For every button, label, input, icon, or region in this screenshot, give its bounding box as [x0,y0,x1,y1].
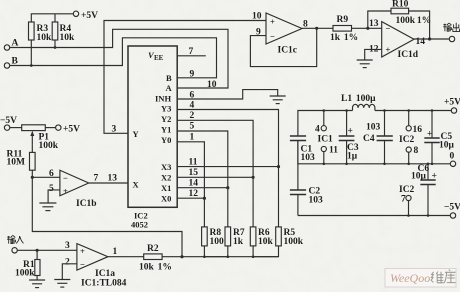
inductor L1 [353,104,375,110]
op-amp IC1a [77,244,108,271]
svg-text:5: 5 [49,184,54,194]
ground at R1 [29,280,45,288]
resistor R10 [391,8,409,14]
label output (Chinese) 输出 [443,23,459,32]
IC2 pin 14 wire (X1) joins Y1 net [177,187,228,189]
svg-text:R2: R2 [147,244,159,254]
SECTION-RBANK [182,165,304,257]
terminal +5V (R3/R4 pullup) [73,11,78,16]
pin 8 of IC2 [406,147,411,152]
capacitor C1 [290,135,306,137]
wire R11 bottom down to feedback node [32,170,182,257]
svg-text:Y3: Y3 [161,103,171,113]
pin 7 of IC2 [406,195,411,200]
svg-text:10k: 10k [60,33,76,43]
capacitor C6 (electrolytic) [427,164,429,180]
svg-text:IC2: IC2 [399,185,415,195]
resistor R11 [30,152,36,170]
IC2 pin 1 wire (Y0) to R8 [177,142,204,227]
node B junction dot [30,64,33,67]
wire R10 to output node [409,11,430,39]
label input (Chinese) 输入 [7,235,24,243]
wire IC2 pin7 stub [408,201,410,216]
svg-text:X1: X1 [161,183,171,193]
IC2 pin 7 stub (VEE) [177,55,206,57]
terminal A [4,45,9,50]
svg-text:B: B [166,73,172,83]
wire R11 top to wiper [31,145,33,153]
svg-text:103: 103 [366,123,381,133]
wire IC2 pin16 stub [408,111,410,126]
SECTION-IC1D [357,0,460,68]
wire R10 feedback riser [368,11,391,28]
svg-text:+: + [348,127,353,137]
terminal input [12,248,17,253]
svg-text:−: − [270,32,275,42]
svg-text:IC1:TL084: IC1:TL084 [81,279,127,289]
pin 16 of IC2 [406,126,411,131]
op-amp IC1c [266,13,302,44]
resistor R2 [144,254,162,260]
pin 11 of IC1 [321,146,326,151]
ground at IC1d [357,60,373,68]
svg-text:2: 2 [65,258,70,268]
node feedback junction [180,255,183,258]
svg-text:+5V: +5V [81,11,98,21]
wire IC2 pin3 Y to IC1c + input [104,21,266,134]
terminal -5V (P1 left) [4,125,9,130]
svg-text:3: 3 [112,125,117,135]
svg-text:+: + [432,172,437,182]
SECTION-IC1A [7,235,184,288]
wire IC1c output to R9 [302,27,333,29]
svg-text:12: 12 [189,189,199,199]
svg-text:1k: 1k [233,237,244,247]
capacitor C2 [297,164,299,190]
svg-text:100k: 100k [284,237,304,247]
node rail junction dots [203,109,433,258]
wire R3 bottom to node B [30,40,32,66]
resistor R6 [250,227,256,246]
wire +5V rail [298,111,353,137]
svg-text:10: 10 [207,80,217,90]
svg-text:Y: Y [133,129,139,139]
potentiometer P1 [10,127,22,129]
IC2 pin 12 wire (X0) joins Y0 net [177,197,204,199]
wire IC1d + input to ground [365,49,382,59]
svg-text:+: + [63,186,68,196]
svg-text:3: 3 [65,241,70,251]
ground at IC1b [39,203,56,211]
capacitor C5 (electrolytic) [431,111,433,139]
svg-text:4: 4 [315,125,320,135]
svg-text:2: 2 [190,111,195,121]
svg-text:13: 13 [369,19,379,29]
resistor R4 [52,22,58,40]
svg-text:+5V: +5V [444,98,460,108]
svg-text:C4: C4 [363,134,375,144]
node X0 junction [203,197,206,200]
wire A terminal to riser [10,29,228,88]
svg-text:11: 11 [329,146,338,156]
op-amp IC1b [60,170,89,196]
svg-text:X0: X0 [161,193,171,203]
SECTION-IC1B [0,116,182,258]
svg-text:INH: INH [155,94,171,104]
svg-text:0: 0 [450,152,455,162]
svg-text:EE: EE [154,54,164,62]
svg-text:10k: 10k [258,237,274,247]
svg-text:WeeQoo: WeeQoo [390,271,430,285]
IC2 4052 body [128,46,177,207]
svg-text:10k: 10k [37,33,53,43]
wire IC1d output to terminal [414,38,449,40]
op-amp IC1d [382,22,414,57]
resistor R5 [276,227,282,246]
svg-text:IC1c: IC1c [278,46,298,56]
pin 4 of IC1 [321,126,326,131]
svg-text:−5V: −5V [444,203,460,213]
svg-text:4: 4 [190,101,195,111]
svg-text:−: − [386,24,391,34]
svg-text:10: 10 [252,12,262,22]
svg-text:1μ: 1μ [347,152,358,162]
svg-text:+: + [427,130,432,140]
svg-text:L1 100μ: L1 100μ [341,94,376,104]
node IC1c output junction [315,27,318,30]
resistor R8 [202,227,208,246]
wire resistor bank bottom rail [204,246,227,257]
wire R1 bottom to ground [36,276,38,280]
svg-text:6: 6 [190,91,195,101]
node R1 top junction [36,249,39,252]
node IC1d output junction [428,37,431,40]
svg-text:100: 100 [210,237,225,247]
wire R9 to IC1d - input [352,27,382,29]
resistor R1 [36,250,38,259]
svg-text:103: 103 [301,153,316,163]
wire input to IC1a + [18,249,77,251]
svg-text:7: 7 [189,47,194,57]
wire IC1b output to IC2 pin X [89,182,128,184]
svg-text:X3: X3 [161,162,171,172]
svg-text:R10: R10 [392,0,409,10]
svg-text:8: 8 [414,146,419,156]
svg-text:10k 1%: 10k 1% [139,263,172,273]
svg-text:16: 16 [413,125,423,135]
svg-text:100k 1%: 100k 1% [396,16,432,26]
SECTION-IC2 [112,46,286,230]
wire IC1b + input to ground [48,190,60,203]
svg-text:−: − [63,173,68,183]
wire IC1 pin11 stub [323,152,325,164]
svg-text:Y0: Y0 [161,135,171,145]
SECTION-TOPLEFT [4,11,266,133]
node A junction dot [54,46,57,49]
svg-text:15: 15 [189,168,199,178]
svg-text:10μ: 10μ [411,172,427,182]
svg-text:Y2: Y2 [161,114,171,124]
svg-text:−5V: −5V [0,116,17,126]
svg-text:R9: R9 [337,15,349,25]
IC2 pin 6 wire to ground [177,90,278,99]
node X1 junction [226,186,229,189]
resistor R7 [225,227,231,246]
svg-text:14: 14 [189,179,199,189]
svg-text:6: 6 [49,169,54,179]
node IC1b - tap junction [31,176,34,179]
svg-text:1k 1%: 1k 1% [330,33,358,43]
SECTION-IC1C [250,12,381,67]
node X2 junction [252,176,255,179]
svg-text:10μ: 10μ [439,141,455,151]
wire 0V rail [298,141,450,164]
IC2 pin 5 wire (Y1) to R7 [177,131,228,227]
svg-text:100k: 100k [39,141,59,151]
terminal -5V right [450,213,455,218]
wire IC2 pin8 stub [408,152,410,164]
capacitor C3 (electrolytic) [346,111,348,137]
svg-text:9: 9 [190,70,195,80]
svg-text:13: 13 [108,174,118,184]
node X3 junction [277,165,280,168]
wire to IC1b - input [32,176,60,178]
IC2 pin 2 wire (Y2) to R6 [177,120,253,227]
wire -5V rail [298,215,450,217]
svg-text:1: 1 [190,133,195,143]
wire R2 to feedback node [162,256,182,258]
svg-text:IC1b: IC1b [76,199,97,209]
svg-text:IC1a: IC1a [95,269,115,279]
svg-text:+: + [80,246,85,256]
svg-text:103: 103 [309,196,324,206]
wire IC1 pin4 stub [323,111,325,126]
svg-text:−: − [80,260,85,270]
svg-text:100k: 100k [15,269,35,279]
P1 wiper arrow [31,134,33,145]
svg-text:1: 1 [113,247,118,257]
svg-text:+: + [270,17,275,27]
terminal B [4,63,9,68]
IC2 pin 15 wire (X2) joins Y2 net [177,176,253,178]
resistor R9 [333,26,352,32]
svg-text:IC1d: IC1d [398,50,419,60]
wire +5V rail to R3/R4 tops [31,14,73,22]
IC2 pin 11 wire (X3) joins Y3 net [177,166,278,168]
svg-text:IC1: IC1 [318,135,334,145]
IC2 pin 4 wire (Y3) to R5 [177,110,278,227]
ground at IC1a [54,280,70,288]
svg-text:10M: 10M [7,158,26,168]
svg-text:X: X [133,180,140,190]
ground at INH [270,96,286,104]
svg-text:+5V: +5V [63,125,80,135]
svg-text:11: 11 [189,158,198,168]
SECTION-WATERMARK [385,269,456,288]
wire B terminal to riser [10,38,217,78]
svg-text:4052: 4052 [131,220,148,230]
svg-text:IC2: IC2 [399,135,415,145]
wire R4 bottom to node A [54,40,56,48]
svg-text:Y1: Y1 [161,124,171,134]
svg-text:A: A [166,83,173,93]
svg-text:5: 5 [190,122,195,132]
svg-text:X2: X2 [161,172,171,182]
wire IC1a - input to ground [62,264,77,279]
terminal +5V (P1 right) [56,125,61,130]
svg-text:7: 7 [94,174,99,184]
resistor R3 [29,22,35,40]
terminal 0V [450,161,455,166]
terminal +5V right [451,108,456,113]
svg-text:+: + [386,45,391,55]
terminal output [449,36,454,41]
SECTION-SUPPLY [203,94,460,258]
wire IC1a output to R2 [108,256,144,258]
capacitor C4 [384,111,386,137]
node R10 tap junction [366,27,369,30]
svg-text:7: 7 [401,195,406,205]
wire R4 top [54,14,56,22]
wire IC1c - input feedback loop [250,28,316,66]
